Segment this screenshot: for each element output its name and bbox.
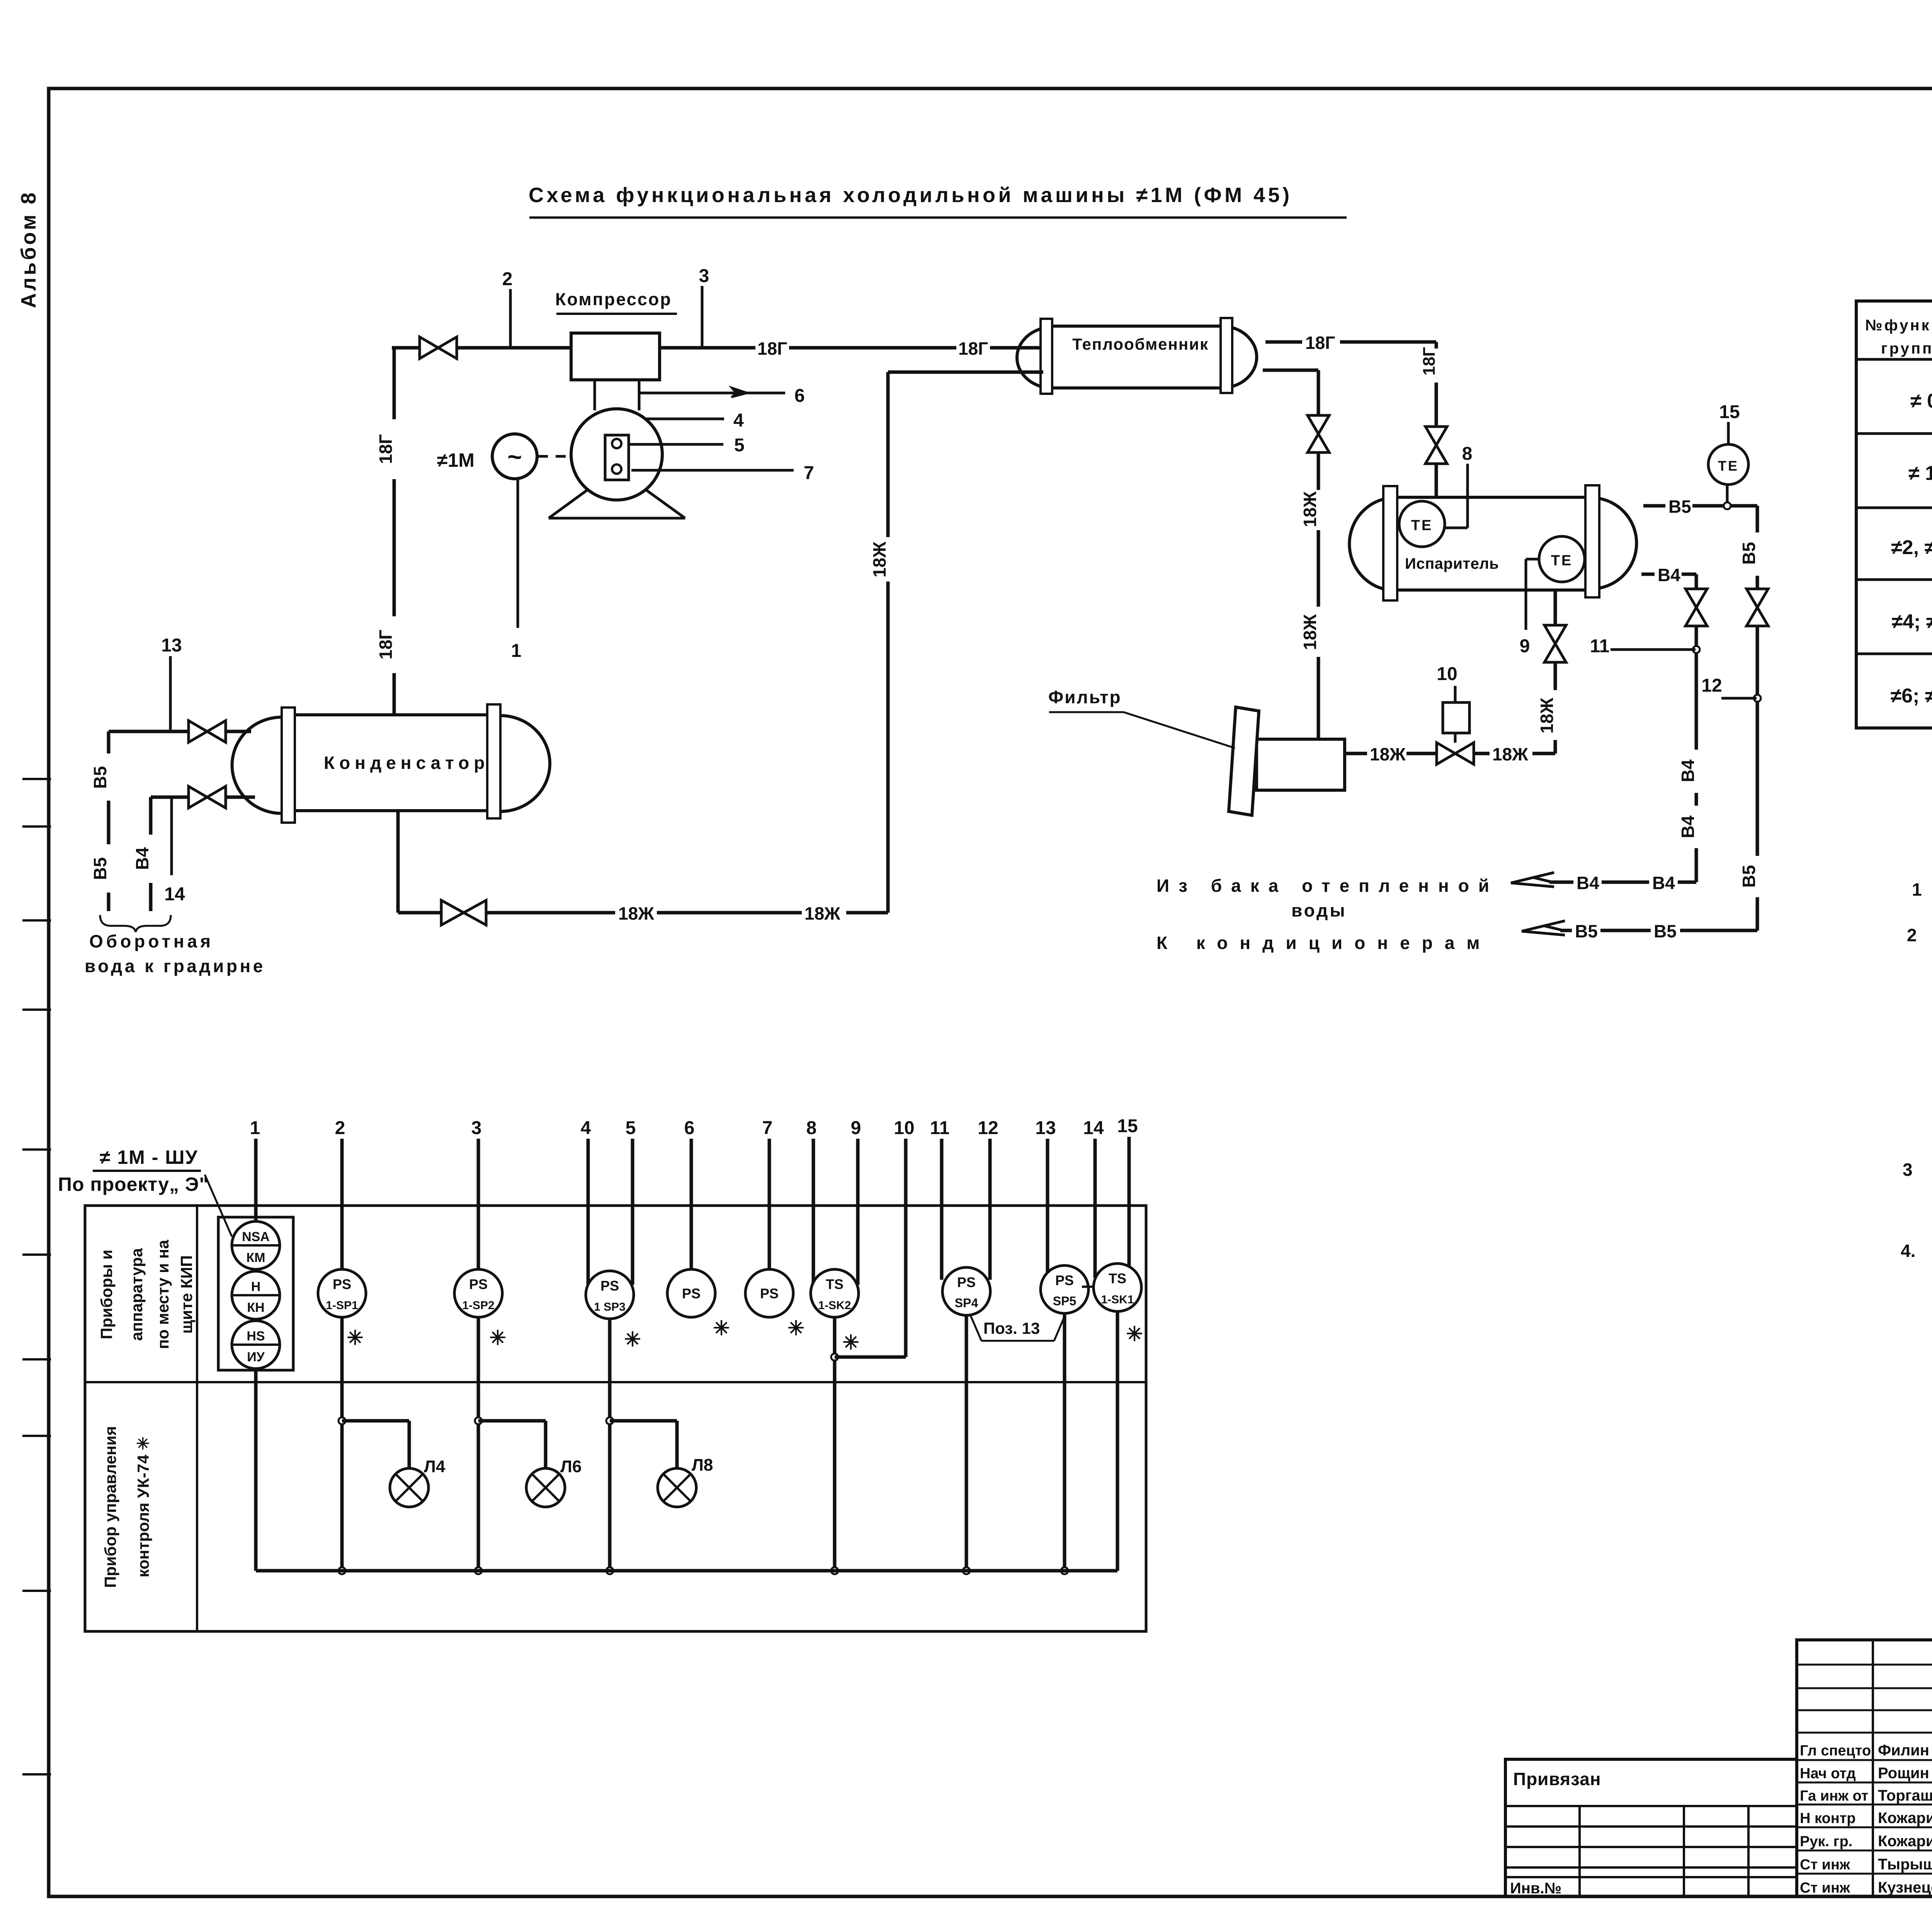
svg-text:1-SK2: 1-SK2 [818, 1299, 851, 1312]
svg-text:1: 1 [511, 641, 522, 661]
svg-text:≠4; ≠5: ≠4; ≠5 [1892, 611, 1932, 633]
svg-text:PS: PS [760, 1286, 779, 1301]
svg-text:9: 9 [1520, 636, 1530, 656]
leader line 1 [511, 479, 522, 661]
brace recirculating water [85, 915, 265, 976]
signature table texts [1800, 1742, 1932, 1896]
svg-text:✳: ✳ [842, 1332, 859, 1354]
svg-text:ТЕ: ТЕ [1718, 458, 1739, 474]
album label [17, 190, 40, 308]
leader line 3 [699, 266, 709, 347]
pipe B5 riser to manifold [1739, 626, 1761, 930]
svg-text:Гл спецто: Гл спецто [1800, 1743, 1871, 1759]
wire 1 [250, 1118, 260, 1571]
table row 2 [1908, 462, 1932, 485]
svg-text:18Г: 18Г [376, 629, 396, 659]
svg-text:3: 3 [1903, 1160, 1913, 1180]
pipe B4 riser down with valve [1678, 574, 1707, 882]
pressure switch PS SP5 [1041, 1265, 1088, 1313]
svg-text:HS: HS [247, 1329, 265, 1344]
pressure switch PS 1-SP3 [586, 1271, 641, 1351]
wire 13 [1035, 1118, 1056, 1278]
pipe 18Г down to evaporator with valve [1420, 342, 1439, 427]
leader line 2 [502, 269, 513, 347]
wire PS SP5 lower [1061, 1313, 1068, 1574]
svg-text:Н: Н [251, 1279, 261, 1294]
label 1M [437, 449, 474, 471]
svg-text:Альбом 8: Альбом 8 [17, 190, 40, 308]
svg-text:В4: В4 [1652, 873, 1675, 893]
table row 3 [1891, 536, 1932, 559]
svg-text:Инв.№: Инв.№ [1510, 1880, 1561, 1897]
svg-text:Л6: Л6 [560, 1457, 582, 1476]
pressure switch PS 1-SP1 [318, 1269, 366, 1349]
svg-text:11: 11 [930, 1118, 950, 1138]
table row 1 [1910, 390, 1932, 412]
wire 7 [762, 1118, 773, 1269]
svg-text:КН: КН [247, 1300, 264, 1315]
temperature switch TS 1-SK2 [811, 1269, 859, 1354]
condenser water pipe bottom [151, 796, 255, 799]
svg-text:ТЕ: ТЕ [1551, 553, 1573, 569]
svg-text:1 SP3: 1 SP3 [594, 1301, 626, 1313]
svg-text:Из бака отепленной: Из бака отепленной [1156, 876, 1498, 896]
svg-text:PS: PS [682, 1286, 701, 1301]
instrument tap line 4 [645, 410, 744, 431]
evaporator drain line with valve [1474, 590, 1566, 764]
leader line 9 [1520, 559, 1539, 656]
pipe B4 to cooling tower [132, 797, 152, 911]
svg-text:В5: В5 [1575, 921, 1598, 941]
valve on condenser water inlet top [189, 721, 226, 742]
svg-text:15: 15 [1117, 1116, 1138, 1136]
leader line 11 [1590, 636, 1696, 656]
svg-text:18Ж: 18Ж [1492, 744, 1528, 764]
svg-text:Теплообменник: Теплообменник [1072, 335, 1209, 353]
svg-text:Га инж от: Га инж от [1800, 1788, 1868, 1804]
svg-text:SP5: SP5 [1053, 1294, 1076, 1308]
svg-text:≠6; ≠7: ≠6; ≠7 [1891, 685, 1932, 707]
svg-text:ТS: ТS [1109, 1270, 1126, 1286]
svg-text:14: 14 [1083, 1118, 1104, 1138]
condenser vessel [232, 704, 550, 823]
svg-text:10: 10 [1437, 664, 1457, 684]
svg-text:18Г: 18Г [1305, 333, 1335, 353]
svg-text:4: 4 [581, 1118, 591, 1138]
relay group box [218, 1217, 293, 1370]
svg-text:8: 8 [806, 1118, 817, 1138]
temperature switch TS 1-SK1 [1082, 1264, 1143, 1345]
leader line 13 [161, 635, 182, 731]
pipe 18Ж heat exchanger return riser [869, 372, 889, 913]
pressure switch PS wire6 [667, 1269, 730, 1340]
compressor base mount [549, 490, 685, 518]
lamp L6 branch [478, 1421, 582, 1507]
svg-text:Рощин: Рощин [1878, 1765, 1929, 1782]
svg-text:PS: PS [600, 1278, 619, 1294]
left margin tick marks [22, 779, 51, 1774]
svg-text:≠2, ≠3: ≠2, ≠3 [1891, 536, 1932, 559]
valve on condenser outlet [441, 900, 486, 925]
pressure switch PS 1-SP2 [454, 1269, 506, 1349]
svg-text:Нач отд: Нач отд [1800, 1765, 1856, 1782]
svg-text:✳: ✳ [624, 1328, 641, 1351]
instrument tap line 5 [630, 435, 745, 456]
svg-text:13: 13 [161, 635, 182, 656]
svg-text:Оборотная: Оборотная [89, 931, 214, 951]
svg-text:КМ: КМ [246, 1250, 265, 1265]
svg-text:≠ 0: ≠ 0 [1910, 390, 1932, 412]
svg-text:18Ж: 18Ж [804, 903, 840, 923]
wire 8 [806, 1118, 817, 1285]
valve on discharge line [420, 337, 457, 359]
wire 2 lower [338, 1317, 345, 1574]
svg-text:аппаратура: аппаратура [128, 1248, 146, 1341]
svg-text:Тырышкин: Тырышкин [1878, 1856, 1932, 1873]
svg-text:2: 2 [335, 1118, 345, 1138]
svg-text:по месту и на: по месту и на [154, 1240, 172, 1349]
svg-text:Кузнецова: Кузнецова [1878, 1879, 1932, 1896]
svg-text:SP4: SP4 [955, 1296, 978, 1310]
svg-text:группы: группы [1881, 340, 1932, 357]
notes text block [1901, 874, 1932, 1287]
wire 2 [335, 1118, 345, 1269]
svg-text:1-SP2: 1-SP2 [462, 1299, 494, 1312]
svg-text:18Г: 18Г [1420, 347, 1439, 376]
wire PS SP4 lower [963, 1315, 970, 1574]
wire 14 [1083, 1118, 1104, 1278]
svg-text:Кожаринова: Кожаринова [1878, 1810, 1932, 1827]
relay circle N KN [232, 1271, 280, 1319]
svg-text:Кожаринова: Кожаринова [1878, 1833, 1932, 1850]
svg-text:К кондиционерам: К кондиционерам [1156, 933, 1492, 953]
pressure switch PS wire7 [745, 1269, 804, 1340]
condenser outlet 18Ж line [398, 811, 888, 923]
svg-text:≠1М: ≠1М [437, 449, 474, 471]
svg-text:Прибор управления: Прибор управления [101, 1426, 119, 1588]
svg-text:1-SK1: 1-SK1 [1101, 1293, 1134, 1306]
valve on condenser water inlet bottom [189, 786, 226, 808]
heat exchanger bottom outlet to filter [1263, 370, 1318, 415]
thermocouple TE pos 15 [1708, 402, 1748, 509]
svg-text:В5: В5 [1668, 497, 1691, 517]
svg-text:В5: В5 [1739, 542, 1759, 565]
pressure switch PS SP4 [942, 1267, 990, 1315]
svg-text:PS: PS [957, 1274, 976, 1290]
svg-text:6: 6 [794, 386, 805, 406]
svg-text:щите КИП: щите КИП [177, 1255, 196, 1334]
svg-text:18Г: 18Г [958, 338, 988, 359]
svg-text:В5: В5 [1654, 921, 1677, 941]
panel common bus [256, 1569, 1117, 1573]
svg-text:PS: PS [333, 1276, 351, 1292]
svg-text:1-SP1: 1-SP1 [326, 1299, 358, 1312]
svg-text:По проекту„ Э": По проекту„ Э" [58, 1173, 209, 1195]
svg-text:В4: В4 [1577, 873, 1599, 893]
discharge pipe 18Г compressor to heat exchanger [392, 338, 1043, 359]
svg-text:5: 5 [626, 1118, 636, 1138]
svg-text:✳: ✳ [1126, 1323, 1143, 1345]
leader line 12 [1701, 675, 1757, 698]
wire 10 [894, 1118, 914, 1357]
pipe B5 to cooling tower [90, 731, 110, 911]
svg-text:1: 1 [250, 1118, 260, 1138]
table header cells [1865, 317, 1932, 357]
svg-text:Торгашов: Торгашов [1878, 1787, 1932, 1804]
pipe 18Ж down to filter [1300, 452, 1320, 739]
evaporator outlet B5 top [1643, 497, 1757, 517]
wire 5 [626, 1118, 636, 1285]
svg-text:Рук. гр.: Рук. гр. [1800, 1833, 1852, 1850]
svg-text:12: 12 [1701, 675, 1722, 696]
svg-text:18Г: 18Г [757, 338, 787, 359]
svg-text:18Ж: 18Ж [1370, 744, 1406, 764]
thermocouple TE in evaporator right [1539, 536, 1585, 582]
svg-text:NSA: NSA [242, 1230, 270, 1244]
svg-text:Н контр: Н контр [1800, 1810, 1856, 1827]
svg-text:18Ж: 18Ж [869, 541, 889, 577]
svg-text:ИУ: ИУ [247, 1350, 265, 1364]
svg-text:Конденсатор: Конденсатор [324, 753, 489, 773]
heat exchanger lower left pipe [888, 371, 1043, 374]
table row 5 [1891, 684, 1932, 707]
svg-text:1: 1 [1912, 879, 1922, 900]
instrument tap line 6 [639, 386, 805, 406]
svg-text:✳: ✳ [489, 1327, 506, 1349]
svg-text:Компрессор: Компрессор [555, 289, 672, 309]
callout pos 13 [971, 1315, 1065, 1341]
svg-text:ТS: ТS [826, 1276, 844, 1292]
condenser top inlet pipes [109, 730, 251, 733]
compressor motor circle [571, 409, 662, 500]
svg-text:В5: В5 [90, 857, 110, 880]
valve above evaporator [1425, 427, 1447, 497]
valve on 18Ж filter line [1308, 415, 1329, 452]
pipe B5 riser down [1739, 506, 1759, 588]
svg-text:3: 3 [471, 1118, 482, 1138]
wire 3 lower [475, 1317, 482, 1574]
svg-text:9: 9 [851, 1118, 861, 1138]
heat exchanger vessel [1017, 318, 1257, 394]
svg-text:8: 8 [1462, 444, 1473, 464]
svg-text:4.: 4. [1901, 1241, 1915, 1261]
svg-text:7: 7 [804, 463, 814, 483]
filter inlet segment [1345, 744, 1437, 764]
svg-text:11: 11 [1590, 636, 1610, 656]
svg-text:≠ 1М - ШУ: ≠ 1М - ШУ [100, 1146, 198, 1168]
motor symbol M1 [492, 434, 570, 479]
svg-text:18Ж: 18Ж [1537, 697, 1557, 733]
svg-text:10: 10 [894, 1118, 914, 1138]
svg-text:№функцион.: №функцион. [1865, 317, 1932, 334]
table row 4 [1892, 611, 1932, 633]
svg-text:Ст инж: Ст инж [1800, 1857, 1850, 1873]
panel row headers [97, 1240, 196, 1588]
svg-text:12: 12 [978, 1118, 998, 1138]
compressor label [555, 289, 677, 314]
svg-text:В4: В4 [1658, 565, 1680, 585]
svg-text:Л8: Л8 [692, 1456, 713, 1475]
instrument tap line 7 [631, 463, 814, 483]
svg-text:6: 6 [684, 1118, 695, 1138]
svg-text:18Ж: 18Ж [618, 903, 654, 923]
heat exchanger outlet 18Г right [1265, 333, 1436, 353]
svg-text:7: 7 [762, 1118, 773, 1138]
svg-text:воды: воды [1291, 900, 1347, 920]
instrument panel box [85, 1206, 1146, 1631]
svg-text:контроля УК-74 ✳: контроля УК-74 ✳ [134, 1437, 152, 1578]
panel label 1M-ShU [58, 1146, 232, 1236]
compressor body [571, 333, 660, 410]
svg-text:вода к градирне: вода к градирне [85, 956, 265, 976]
wire 11 [930, 1118, 950, 1280]
svg-text:PS: PS [1055, 1272, 1074, 1288]
svg-text:15: 15 [1719, 402, 1740, 422]
svg-text:18Ж: 18Ж [1300, 614, 1320, 650]
svg-text:≠ 1: ≠ 1 [1908, 462, 1932, 485]
thermocouple TE in evaporator left [1399, 501, 1445, 547]
svg-text:✳: ✳ [713, 1317, 730, 1340]
svg-text:Приборы и: Приборы и [97, 1250, 116, 1339]
svg-text:✳: ✳ [787, 1317, 804, 1340]
svg-text:Поз. 13: Поз. 13 [983, 1319, 1040, 1337]
svg-text:В4: В4 [1678, 815, 1698, 838]
svg-text:~: ~ [507, 443, 522, 471]
lamp L4 branch [342, 1421, 446, 1507]
svg-text:В4: В4 [1678, 759, 1698, 782]
relay circle HS IU [232, 1321, 280, 1369]
privyazan box [1505, 1759, 1797, 1897]
sheet title [529, 184, 1347, 218]
evaporator outlet B4 bottom [1641, 565, 1696, 585]
filter label [1048, 687, 1235, 748]
svg-text:5: 5 [734, 435, 745, 456]
wire 6 [684, 1118, 695, 1269]
svg-text:2: 2 [1907, 925, 1917, 945]
wire 3 [471, 1118, 482, 1269]
filter [1229, 707, 1345, 815]
relay circle NSA KM [232, 1221, 280, 1269]
wire 4 [581, 1118, 591, 1285]
svg-text:В5: В5 [1739, 865, 1759, 888]
svg-text:Привязан: Привязан [1513, 1769, 1601, 1789]
svg-text:Ст инж: Ст инж [1800, 1880, 1850, 1896]
wire 5 lower [606, 1319, 613, 1574]
svg-text:18Ж: 18Ж [1300, 491, 1320, 527]
control valve 10 with actuator [1437, 664, 1474, 764]
svg-text:В5: В5 [90, 766, 110, 789]
svg-text:18Г: 18Г [376, 434, 396, 464]
svg-text:3: 3 [699, 266, 709, 286]
wire 9 [851, 1118, 861, 1285]
svg-text:В4: В4 [132, 847, 152, 870]
svg-text:2: 2 [502, 269, 513, 289]
svg-text:13: 13 [1035, 1118, 1056, 1138]
leader line 14 [164, 797, 185, 905]
svg-text:14: 14 [164, 884, 185, 905]
svg-text:Филин: Филин [1878, 1742, 1929, 1759]
leader line 8 [1446, 444, 1472, 528]
svg-text:Испаритель: Испаритель [1405, 555, 1499, 572]
lamp L8 branch [610, 1421, 713, 1507]
signature table grid [1797, 1640, 1932, 1896]
svg-text:PS: PS [469, 1276, 488, 1292]
svg-text:ТЕ: ТЕ [1411, 517, 1433, 534]
svg-text:Схема функциональная холодил: Схема функциональная холодильной машины … [529, 184, 1293, 207]
functional groups table grid [1856, 301, 1932, 728]
pipe 18Г down to condenser [376, 348, 396, 714]
TS 1-SK2 lower wire and jog to wire 10 [831, 1317, 906, 1574]
wire TS 1-SK1 lower [1116, 1311, 1119, 1571]
from warm water tank line B4 [1156, 872, 1696, 920]
svg-text:Фильтр: Фильтр [1048, 687, 1122, 707]
wire 15 [1117, 1116, 1138, 1273]
evaporator vessel [1349, 485, 1636, 600]
svg-text:✳: ✳ [347, 1327, 364, 1349]
valve on B5 riser [1747, 589, 1768, 626]
to air conditioners line B5 [1156, 921, 1757, 953]
svg-text:4: 4 [733, 410, 744, 431]
svg-text:Л4: Л4 [424, 1457, 446, 1476]
wire 12 [978, 1118, 998, 1280]
